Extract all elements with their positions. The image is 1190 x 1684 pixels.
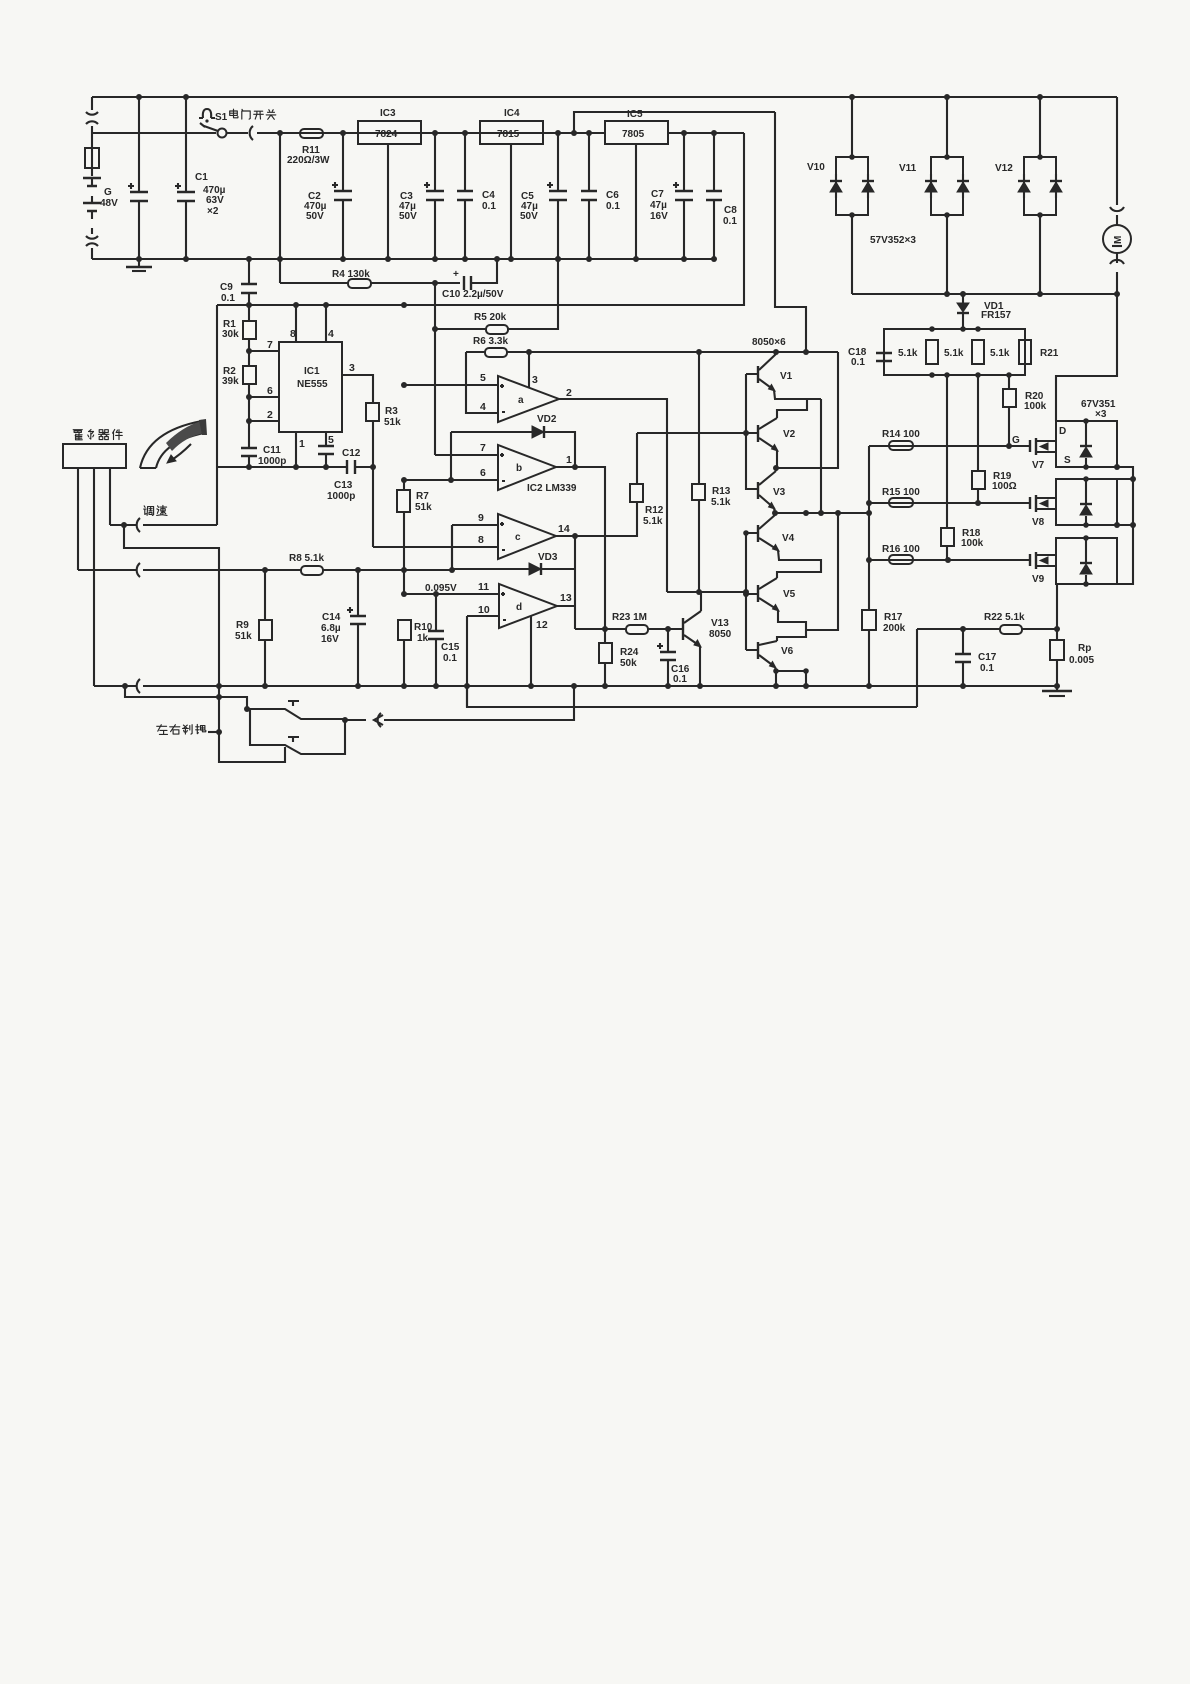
resistor R18 [941, 528, 954, 546]
svg-text:G: G [104, 187, 112, 198]
node R4 top [279, 133, 281, 283]
node G [1006, 443, 1012, 449]
svg-text:7: 7 [267, 339, 273, 351]
wire source bus right [1117, 467, 1133, 584]
svg-text:VD2: VD2 [537, 414, 557, 425]
svg-text:3: 3 [532, 374, 538, 386]
capacitor C7 [683, 133, 685, 259]
wire net to R19 [977, 375, 979, 471]
comparator a [498, 376, 559, 422]
svg-text:C1: C1 [195, 172, 208, 183]
svg-text:R17: R17 [884, 612, 903, 623]
IC5 gnd pin [635, 144, 637, 259]
svg-text:1000p: 1000p [258, 456, 286, 467]
svg-text:1: 1 [566, 454, 572, 466]
svg-text:5.1k: 5.1k [643, 516, 663, 527]
svg-text:R13: R13 [712, 486, 731, 497]
wire R12 to V2 base row [637, 432, 746, 434]
svg-text:IC2 LM339: IC2 LM339 [527, 483, 577, 494]
svg-text:V9: V9 [1032, 574, 1045, 585]
svg-text:0.1: 0.1 [980, 663, 994, 674]
svg-text:0.1: 0.1 [673, 674, 687, 685]
svg-text:V8: V8 [1032, 517, 1045, 528]
comparator c [498, 514, 556, 559]
svg-text:220Ω/3W: 220Ω/3W [287, 155, 330, 166]
node S1 out [277, 130, 283, 136]
svg-text:V10: V10 [807, 162, 825, 173]
svg-text:C4: C4 [482, 190, 495, 201]
capacitor C14 [357, 570, 359, 686]
pin 2 row [249, 420, 279, 422]
resistor R2 [248, 351, 250, 448]
IC4 7815 [480, 121, 543, 144]
svg-text:6: 6 [480, 467, 486, 479]
junction top C1b [183, 94, 189, 100]
capacitor C17 [962, 629, 964, 686]
comparator b [498, 445, 556, 490]
output 14 wire [556, 502, 637, 536]
svg-text:57V352×3: 57V352×3 [870, 235, 916, 246]
svg-text:C17: C17 [978, 652, 997, 663]
svg-text:S1: S1 [215, 112, 228, 123]
capacitor C9 [248, 259, 250, 305]
resistor R22 [1000, 625, 1022, 634]
svg-text:6.8µ: 6.8µ [321, 623, 341, 634]
svg-text:50V: 50V [399, 211, 417, 222]
fuse F [85, 148, 99, 168]
svg-text:4: 4 [480, 401, 486, 413]
hall leads [78, 468, 110, 686]
svg-text:8: 8 [478, 534, 484, 546]
resistor Rp [1050, 640, 1064, 660]
pin 6 row [404, 479, 498, 481]
wire 7805 bypass [574, 112, 775, 133]
svg-text:8: 8 [290, 328, 296, 340]
svg-text:0.1: 0.1 [482, 201, 496, 212]
transistor V1 [757, 366, 759, 383]
svg-text:R9: R9 [236, 620, 249, 631]
resistor R10 [398, 620, 411, 640]
svg-text:50V: 50V [520, 211, 538, 222]
junction R4/R5 [432, 280, 438, 286]
motor M [1116, 97, 1118, 294]
throttle row [144, 506, 154, 516]
pin 11 row [404, 593, 499, 595]
svg-text:×2: ×2 [207, 206, 219, 217]
junction top C1a [136, 94, 142, 100]
pin 5 row [404, 384, 498, 386]
wire comp2 to V5 base row [667, 591, 746, 593]
capacitor C11 [241, 448, 257, 456]
brake plug connector [345, 713, 383, 727]
main ground rail [94, 685, 1057, 687]
svg-text:8050×6: 8050×6 [752, 337, 786, 348]
pin 7 row [435, 454, 498, 456]
svg-text:51k: 51k [384, 417, 401, 428]
svg-text:5.1k: 5.1k [990, 348, 1010, 359]
wire V2 emitter row [777, 352, 838, 468]
svg-text:5: 5 [328, 434, 334, 446]
svg-text:47µ: 47µ [650, 200, 667, 211]
switch S1 [200, 123, 218, 131]
svg-text:R23 1M: R23 1M [612, 612, 647, 623]
svg-text:C10 2.2µ/50V: C10 2.2µ/50V [442, 289, 504, 300]
resistor R9 [264, 570, 266, 686]
svg-text:50V: 50V [306, 211, 324, 222]
capacitor C15 [435, 594, 437, 686]
svg-text:0.005: 0.005 [1069, 655, 1094, 666]
label brakes [157, 725, 168, 735]
pin 10 row [467, 615, 499, 617]
svg-text:6: 6 [267, 385, 273, 397]
svg-text:a: a [518, 395, 524, 406]
wire V1 emitter jog [774, 390, 821, 418]
wire gate row R15 [869, 502, 1030, 504]
svg-text:7815: 7815 [497, 129, 520, 140]
svg-text:V11: V11 [899, 163, 917, 174]
mosfet cell V8 [1056, 479, 1117, 525]
svg-text:R12: R12 [645, 505, 664, 516]
capacitor C13 series [347, 460, 355, 474]
IC3 7824 [358, 121, 421, 144]
svg-text:V3: V3 [773, 487, 786, 498]
thyristor module V12 [1024, 157, 1056, 215]
electrolytic plus marks [128, 183, 181, 189]
svg-text:C12: C12 [342, 448, 361, 459]
junction bottom C1a [136, 256, 142, 262]
capacitor C18 [876, 353, 892, 361]
wire bus drop 838 [806, 513, 838, 630]
pin 12 stub [530, 616, 532, 686]
wire brake feed row [125, 686, 247, 709]
transistor V5 [757, 585, 759, 602]
resistor R23 [626, 625, 648, 634]
svg-text:R6 3.3k: R6 3.3k [473, 336, 508, 347]
diode VD1 FR157 [962, 294, 964, 329]
svg-text:5: 5 [480, 372, 486, 384]
resistor R4 [280, 282, 460, 284]
svg-text:100k: 100k [961, 538, 984, 549]
svg-text:V7: V7 [1032, 460, 1045, 471]
rotor arc [140, 420, 204, 468]
transistor V6 [757, 642, 759, 659]
svg-text:200k: 200k [883, 623, 906, 634]
transistor V3 [757, 482, 759, 499]
wire V4 emitter jog [777, 550, 821, 578]
resistor R7 [403, 480, 405, 594]
wire gate bus vertical [868, 446, 870, 610]
svg-text:Rp: Rp [1078, 643, 1091, 654]
brake connector row [384, 686, 574, 720]
svg-text:R14 100: R14 100 [882, 429, 920, 440]
resistor R13 [698, 352, 700, 592]
svg-text:R3: R3 [385, 406, 398, 417]
transistor V2 [757, 425, 759, 442]
svg-text:16V: 16V [321, 634, 339, 645]
svg-text:R15 100: R15 100 [882, 487, 920, 498]
svg-text:d: d [516, 602, 522, 613]
svg-text:5.1k: 5.1k [944, 348, 964, 359]
mosfet V9 symbol [1030, 552, 1036, 569]
wire top 48V rail [92, 96, 1117, 98]
wire throttle branch [124, 525, 219, 697]
capacitor C2 [342, 133, 344, 259]
output 2 wire [559, 399, 667, 592]
svg-text:C9: C9 [220, 282, 233, 293]
brake switch lower [250, 709, 345, 754]
svg-text:16V: 16V [650, 211, 668, 222]
capacitor C1a [138, 97, 140, 259]
svg-text:R8 5.1k: R8 5.1k [289, 553, 324, 564]
thyristor module V11 [931, 157, 963, 215]
wire V3 emitter to bus [774, 508, 775, 513]
svg-text:0.1: 0.1 [221, 293, 235, 304]
svg-text:V12: V12 [995, 163, 1013, 174]
wire emitter tie row [776, 671, 806, 686]
svg-text:V6: V6 [781, 646, 794, 657]
svg-text:9: 9 [478, 512, 484, 524]
svg-text:30k: 30k [222, 329, 239, 340]
wire gate row R16 [869, 559, 1030, 561]
svg-text:C8: C8 [724, 205, 737, 216]
output 1 wire [556, 467, 605, 629]
svg-text:100Ω: 100Ω [992, 481, 1017, 492]
transistor V13 [682, 618, 684, 640]
svg-text:D: D [1059, 426, 1066, 437]
svg-text:R5 20k: R5 20k [474, 312, 507, 323]
capacitor C10 series [464, 276, 471, 290]
svg-text:C7: C7 [651, 189, 664, 200]
svg-text:IC1: IC1 [304, 366, 320, 377]
svg-text:0.1: 0.1 [723, 216, 737, 227]
wire R22 row [917, 628, 1057, 630]
svg-text:63V: 63V [206, 195, 224, 206]
IC4 gnd pin [510, 144, 512, 259]
svg-text:V2: V2 [783, 429, 796, 440]
junction bypass [571, 130, 577, 136]
wire 5V rail stub left [216, 305, 218, 525]
wire ground rail y259 [92, 258, 714, 260]
svg-text:1000p: 1000p [327, 491, 355, 502]
svg-text:R4 130k: R4 130k [332, 269, 370, 280]
battery G leads and connector [91, 97, 93, 259]
capacitor C4 [464, 133, 466, 259]
svg-text:C14: C14 [322, 612, 341, 623]
svg-text:VD3: VD3 [538, 552, 558, 563]
svg-text:10: 10 [478, 604, 490, 616]
svg-text:c: c [515, 532, 521, 543]
svg-text:FR157: FR157 [981, 310, 1011, 321]
svg-text:11: 11 [478, 581, 489, 593]
wire R23 row [575, 628, 668, 630]
capacitor C1b [185, 97, 187, 259]
wire V6 emitter to rail [775, 667, 776, 686]
svg-text:5.1k: 5.1k [711, 497, 731, 508]
svg-text:12: 12 [536, 619, 548, 631]
svg-text:100k: 100k [1024, 401, 1047, 412]
resistor R16 [889, 555, 913, 564]
svg-text:IC3: IC3 [380, 108, 396, 119]
mosfet cell V9 [1056, 538, 1117, 584]
brake switch upper [247, 701, 345, 719]
wire comp a pull vertical [820, 399, 822, 513]
svg-text:IC5: IC5 [627, 109, 643, 120]
svg-text:51k: 51k [235, 631, 252, 642]
svg-text:0.1: 0.1 [606, 201, 620, 212]
resistor R19 [972, 471, 985, 489]
svg-text:8050: 8050 [709, 629, 732, 640]
resistor R1 [248, 305, 250, 351]
svg-text:1: 1 [299, 438, 305, 450]
svg-text:0.095V: 0.095V [425, 583, 457, 594]
pin 4 row [466, 352, 498, 413]
thyristor module V10 [836, 157, 868, 215]
resistor R15 [889, 498, 913, 507]
svg-text:0.1: 0.1 [443, 653, 457, 664]
capacitor C3 [434, 133, 436, 259]
svg-text:48V: 48V [100, 198, 118, 209]
svg-text:1k: 1k [417, 633, 429, 644]
wire net to R20 [1008, 375, 1010, 389]
svg-text:R24: R24 [620, 647, 639, 658]
svg-text:3: 3 [349, 362, 355, 374]
wire V5 emitter jog [777, 610, 806, 641]
resistor 5.1k a [926, 340, 938, 364]
capacitor C6 [588, 133, 590, 259]
resistor R11 [300, 129, 323, 138]
svg-text:M: M [1113, 236, 1124, 244]
svg-text:5.1k: 5.1k [898, 348, 918, 359]
svg-text:51k: 51k [415, 502, 432, 513]
wire brake bottom return [219, 697, 285, 762]
pin 6 row [249, 396, 279, 398]
gnd row 467 [217, 466, 373, 468]
svg-text:2: 2 [566, 387, 572, 399]
mosfet cell V7 [1056, 421, 1117, 467]
svg-text:7: 7 [480, 442, 486, 454]
mosfet V7 symbol [1030, 438, 1036, 455]
resistor R12 [630, 484, 643, 502]
svg-text:C11: C11 [263, 445, 281, 456]
capacitor C5 [557, 133, 559, 259]
svg-text:V13: V13 [711, 618, 729, 629]
diode VD3 [452, 568, 575, 570]
pin 5 / C12 [325, 432, 327, 446]
pin 3 stub [528, 352, 530, 387]
wire net to R18 [946, 375, 948, 528]
svg-text:4: 4 [328, 328, 334, 340]
wire R4 node drop [434, 283, 436, 455]
resistor R24 [604, 629, 606, 686]
svg-text:G: G [1012, 435, 1020, 446]
pin 8 row [373, 546, 498, 548]
pin 9 row [452, 524, 498, 526]
wire V9 source to Rp [1056, 584, 1058, 686]
svg-text:13: 13 [560, 592, 572, 604]
resistor R20 [1003, 389, 1016, 407]
capacitor C8 [713, 133, 715, 259]
ground symbol right [1056, 686, 1058, 690]
wire V7 drain feed [1056, 294, 1117, 421]
wire motor branch rail [852, 293, 1117, 295]
svg-text:R7: R7 [416, 491, 429, 502]
wire R3 node down to pin8 row [372, 467, 374, 547]
IC1 NE555 box [279, 342, 342, 432]
svg-text:+: + [453, 269, 459, 280]
svg-text:IC4: IC4 [504, 108, 520, 119]
wire gate row R14 [869, 445, 1030, 447]
output 13 wire [557, 605, 575, 607]
svg-text:R21: R21 [1040, 348, 1059, 359]
IC3 gnd pin [387, 144, 389, 259]
wire V3 collector [775, 468, 777, 471]
svg-text:S: S [1064, 455, 1071, 466]
wire V4 base bus [745, 533, 747, 650]
node base rows [743, 591, 749, 597]
IC5 7805 [605, 121, 668, 144]
svg-text:7824: 7824 [375, 129, 398, 140]
svg-text:V5: V5 [783, 589, 796, 600]
pin 7 row [249, 350, 279, 352]
diode VD2 [451, 432, 575, 468]
resistor R8 [301, 566, 323, 575]
svg-text:NE555: NE555 [297, 379, 328, 390]
pin 3 row [342, 375, 373, 403]
pin 8 [295, 305, 297, 342]
svg-text:V4: V4 [782, 533, 795, 544]
bell icon S1 [199, 109, 215, 118]
svg-text:C13: C13 [334, 480, 353, 491]
resistor 5.1k c / R21 [1019, 340, 1031, 364]
svg-text:2: 2 [267, 409, 273, 421]
svg-text:×3: ×3 [1095, 409, 1107, 420]
wire 7805 out down [217, 133, 744, 305]
capacitor C16 [667, 629, 669, 686]
svg-text:R22 5.1k: R22 5.1k [984, 612, 1025, 623]
pin 1 [295, 432, 297, 467]
svg-text:0.1: 0.1 [851, 357, 865, 368]
pin 4 [325, 305, 327, 342]
wire 775 drop to driver rail [775, 112, 806, 352]
ground symbol main [138, 259, 140, 266]
svg-text:C15: C15 [441, 642, 460, 653]
hall sensor box [63, 444, 126, 468]
resistor 5.1k b [972, 340, 984, 364]
svg-text:R16 100: R16 100 [882, 544, 920, 555]
wire V1 base bus [745, 374, 747, 490]
transistor V4 [757, 525, 759, 542]
wire pin9 drop [451, 525, 453, 570]
wire switched rail y133 [92, 132, 744, 134]
comparator d [499, 584, 557, 628]
resistor R14 [889, 441, 913, 450]
wire brake sense row [467, 686, 917, 707]
resistor R5 [435, 259, 558, 329]
resistor R3 [366, 403, 379, 421]
svg-text:14: 14 [558, 523, 570, 535]
svg-text:b: b [516, 463, 522, 474]
wire brake return riser [916, 629, 918, 707]
resistor R17 [862, 610, 876, 630]
svg-text:C6: C6 [606, 190, 619, 201]
battery G 48V plates [83, 178, 101, 211]
mosfet V8 symbol [1030, 495, 1036, 512]
resistor network box [884, 329, 1025, 375]
svg-text:7805: 7805 [622, 129, 645, 140]
svg-text:39k: 39k [222, 376, 239, 387]
junction bottom C1b [183, 256, 189, 262]
svg-text:V1: V1 [780, 371, 793, 382]
